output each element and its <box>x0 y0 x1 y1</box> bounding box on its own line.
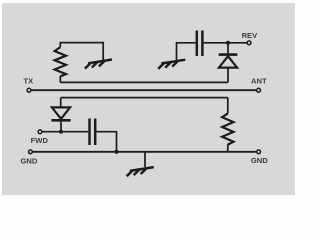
ground (top-left chassis) <box>85 60 112 69</box>
capacitor C2 <box>90 119 96 146</box>
svg-text:GND: GND <box>251 156 268 165</box>
wire: R2 bottom lead <box>227 144 229 152</box>
terminal GND left <box>29 150 33 154</box>
resistor R2 <box>222 113 233 144</box>
wire: R1 bottom lead <box>59 76 61 82</box>
resistor R1 <box>55 47 66 76</box>
wire: C2 right lead down to ground bus <box>96 132 116 152</box>
node: junction dot C1/D1/REV <box>226 41 230 45</box>
capacitor C1 <box>197 31 203 57</box>
svg-text:FWD: FWD <box>31 136 49 145</box>
node: junction dot D2/FWD <box>59 130 63 134</box>
ground (top-right chassis) <box>158 60 185 69</box>
ground (bottom-center chassis) <box>127 167 154 176</box>
wire: R1 top lead to ground stem <box>60 43 103 61</box>
svg-text:GND: GND <box>20 157 37 166</box>
wire: D1 top lead <box>227 43 229 54</box>
wire: main TX-ANT line <box>31 89 256 91</box>
svg-text:TX: TX <box>23 77 33 86</box>
wire: FWD terminal to C2 <box>42 131 88 133</box>
terminal GND right <box>257 150 261 154</box>
svg-text:ANT: ANT <box>251 76 267 85</box>
wire: D2 bottom lead <box>60 120 62 131</box>
capacitor C1 left wire to ground stem <box>177 43 196 61</box>
terminal FWD <box>38 130 42 134</box>
wire: ground bus stem to chassis <box>144 152 146 167</box>
terminal ANT <box>257 88 261 92</box>
node: junction dot on ground bus <box>114 150 118 154</box>
wire: D1 bottom lead to coupled line <box>227 68 229 83</box>
wire: D2 top lead <box>60 98 62 108</box>
wire: C1 right to REV node and terminal <box>204 42 247 44</box>
terminal REV <box>247 41 251 45</box>
wire: upper coupled line <box>60 81 228 83</box>
terminal TX <box>27 88 31 92</box>
wire: ground bus GND-GND <box>33 151 256 153</box>
wire: lower coupled line <box>61 97 228 99</box>
diode D2 (cathode bar down) <box>51 107 70 120</box>
schematic background field <box>2 3 295 195</box>
svg-text:REV: REV <box>242 31 259 40</box>
wire: R2 top lead <box>227 98 229 114</box>
diode D1 (cathode bar up) <box>219 55 238 68</box>
